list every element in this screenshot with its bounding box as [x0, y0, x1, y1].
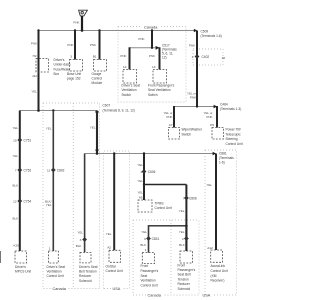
box TPMS Control Unit — [138, 200, 152, 212]
svg-text:C754: C754 — [24, 199, 32, 203]
svg-text:C402: C402 — [202, 55, 210, 59]
svg-text:PNK: PNK — [149, 54, 155, 58]
left page-edge artifact — [0, 251, 2, 263]
ground G symbol — [79, 10, 88, 16]
connector C484 — [214, 105, 218, 109]
svg-text:C831: C831 — [152, 237, 160, 241]
region box USA (OnStar) — [104, 151, 130, 289]
region box Canada (bottom middle, front passenger units) — [133, 220, 199, 295]
wire splitter horizontal — [130, 47, 160, 49]
node splitter junction — [151, 47, 153, 49]
wire to power tilt/telescopic unit — [216, 106, 218, 128]
svg-text:PNK: PNK — [73, 20, 79, 24]
region box Canada (bottom left, driver's seat units) — [43, 103, 100, 289]
node bus2 junctions — [37, 109, 40, 112]
wire bus1 to Bose unit — [74, 31, 76, 60]
svg-text:C752: C752 — [24, 168, 32, 172]
arrow into L3 — [95, 150, 99, 153]
svg-text:C802: C802 — [57, 168, 65, 172]
box AcuraLink Control Unit — [211, 250, 223, 262]
svg-text:BLK/YEL: BLK/YEL — [45, 199, 52, 207]
svg-text:14: 14 — [152, 65, 156, 69]
node L3 junctions — [96, 152, 99, 155]
svg-text:7: 7 — [183, 196, 185, 200]
wire branch to C806 — [144, 184, 186, 186]
svg-text:YEL: YEL — [137, 190, 143, 194]
svg-text:9: 9 — [144, 237, 146, 241]
svg-text:A7: A7 — [169, 123, 173, 127]
box Driver's Seat Ventilation Control Unit — [49, 251, 59, 263]
wire column3 to Driver's Seat Belt Tension Reducer Solenoid — [84, 154, 86, 253]
connector C881 — [213, 152, 217, 156]
svg-text:2: 2 — [182, 237, 184, 241]
connector C607 — [95, 111, 99, 115]
svg-text:3: 3 — [80, 238, 82, 242]
wire L3 horizontal — [85, 153, 216, 155]
svg-text:1: 1 — [49, 246, 51, 250]
wire bus1 to gauge control module — [99, 31, 101, 60]
svg-text:7: 7 — [15, 168, 17, 172]
wire bus1 — [39, 30, 198, 32]
box Gauge Control Module — [94, 60, 107, 72]
svg-text:YEL: YEL — [13, 126, 19, 130]
svg-text:BLK: BLK — [179, 243, 185, 247]
svg-text:PNK: PNK — [90, 43, 96, 47]
box Wiper/Washer Switch — [169, 128, 180, 140]
svg-text:YEL: YEL — [137, 163, 143, 167]
svg-text:BLK: BLK — [13, 216, 19, 220]
svg-text:YEL: YEL — [106, 232, 112, 236]
wire branch2 horizontal — [149, 225, 187, 227]
svg-text:BLK: BLK — [76, 244, 82, 248]
svg-text:YEL: YEL — [77, 231, 83, 235]
box Front Passenger's Seat Ventilation Switch — [153, 70, 167, 84]
connector C509 — [194, 29, 197, 33]
connector C606 diamond — [142, 169, 147, 174]
svg-text:PNK: PNK — [138, 37, 144, 41]
svg-text:YEL: YEL — [179, 209, 185, 213]
svg-text:14: 14 — [123, 65, 127, 69]
svg-text:H2: H2 — [33, 54, 37, 58]
svg-text:A12: A12 — [207, 246, 213, 250]
connector C752 diamond — [17, 168, 22, 173]
svg-text:10: 10 — [13, 138, 17, 142]
svg-text:11: 11 — [47, 168, 50, 172]
svg-text:18: 18 — [222, 56, 226, 60]
wire to wiper/washer switch — [173, 106, 175, 128]
connector diamond col3 — [82, 237, 87, 242]
wire bus1 down to vent switch splitter — [151, 31, 153, 48]
svg-text:C606: C606 — [148, 170, 156, 174]
svg-text:Bose Unitpage 152: Bose Unitpage 152 — [67, 72, 81, 81]
node junction branch2 — [185, 225, 188, 228]
svg-text:PNK: PNK — [189, 43, 195, 47]
svg-text:Canada: Canada — [148, 294, 162, 298]
box Driver's Seat Ventilation Switch — [123, 70, 137, 84]
svg-text:3: 3 — [70, 55, 72, 59]
wire C509 down right side — [196, 31, 198, 107]
svg-text:C751: C751 — [24, 138, 32, 142]
wire column4 to OnStar Control Unit — [113, 154, 115, 251]
connector C806 diamond — [184, 196, 189, 201]
wire ground to bus1 — [81, 16, 83, 31]
svg-text:12: 12 — [13, 199, 17, 203]
fuse box (Driver's Under-dash Fuse/Relay Box) — [36, 59, 49, 73]
node bus1 junctions — [37, 29, 39, 31]
svg-text:4: 4 — [140, 170, 142, 174]
wire column1 to Driver's MPCS Unit — [19, 111, 21, 252]
box OnStar Control Unit — [109, 250, 120, 262]
svg-text:YEL: YEL — [46, 126, 52, 130]
svg-text:BLK: BLK — [13, 183, 19, 187]
wire bus1 to fuse box — [38, 31, 40, 111]
svg-text:1: 1 — [145, 248, 147, 252]
wire C806 down — [185, 185, 187, 252]
svg-text:YEL: YEL — [206, 183, 212, 187]
svg-text:K29: K29 — [13, 244, 19, 248]
connector C402 diamond — [195, 54, 200, 59]
connector C517 — [156, 46, 160, 50]
svg-text:YEL: YEL — [90, 125, 96, 129]
node junction right wire — [196, 105, 198, 107]
svg-text:YEL: YEL — [141, 230, 147, 234]
svg-text:USA: USA — [113, 287, 121, 291]
svg-text:P9: P9 — [210, 123, 214, 127]
svg-text:PNK: PNK — [31, 42, 37, 46]
box Driver's MPCS Unit — [15, 251, 27, 263]
svg-text:C806: C806 — [189, 196, 197, 200]
region box USA (AcuraLink) — [205, 150, 237, 295]
connector C754 diamond — [17, 199, 22, 204]
svg-text:J12: J12 — [32, 74, 37, 78]
box Bose Unit — [70, 60, 83, 72]
wire column5 to TPMS control unit — [143, 154, 145, 201]
wire column6 to Front Passenger's Seat Belt Tension Reducer Solenoid — [185, 226, 187, 251]
svg-text:YEL: YEL — [31, 90, 37, 94]
svg-text:Canada: Canada — [144, 25, 158, 29]
svg-text:A2: A2 — [107, 245, 111, 249]
dashed box around connector C402 — [193, 49, 223, 65]
wire wiper/tilt horizontal — [174, 106, 217, 108]
wire column7 to AcuraLink Control Unit — [215, 154, 217, 251]
svg-text:B1: B1 — [93, 55, 97, 59]
svg-text:YEL: YEL — [13, 154, 19, 158]
connector C751 diamond — [17, 138, 22, 143]
svg-text:PNK: PNK — [67, 43, 73, 47]
wire column2 to Driver's Seat Ventilation Control Unit — [52, 111, 54, 252]
connector diamond col6 — [184, 236, 189, 241]
connector C802 diamond — [51, 168, 56, 173]
wire column5 to Front Passenger's Seat Ventilation Control Unit — [148, 225, 150, 253]
svg-text:BLK: BLK — [140, 243, 146, 247]
svg-text:PNK: PNK — [120, 54, 126, 58]
box Driver's Seat Belt Tension Reducer Solenoid — [80, 252, 91, 263]
connector C831 diamond — [146, 236, 151, 241]
region box Canada (top, seat ventilation switches) — [118, 27, 186, 103]
box Front Passenger's Seat Ventilation Control Unit — [142, 253, 154, 264]
wire C607 down to L3 — [96, 111, 98, 154]
svg-text:A5: A5 — [139, 196, 143, 200]
wire to front passenger's seat ventilation switch — [159, 47, 161, 69]
svg-text:USA: USA — [203, 294, 211, 298]
svg-text:YEL: YEL — [137, 179, 143, 183]
box Power Tilt/Telescopic Steering Control Unit — [212, 128, 224, 140]
svg-text:4: 4 — [192, 55, 194, 59]
node branch junction — [143, 183, 145, 185]
svg-text:GaugeControlModule: GaugeControlModule — [92, 72, 103, 85]
svg-text:YEL: YEL — [179, 230, 185, 234]
svg-text:Canada: Canada — [53, 287, 67, 291]
wire to driver's seat ventilation switch — [129, 47, 131, 69]
box Front Passenger's Seat Belt Tension Reducer Solenoid — [180, 251, 193, 263]
wire bus2 — [20, 110, 97, 112]
